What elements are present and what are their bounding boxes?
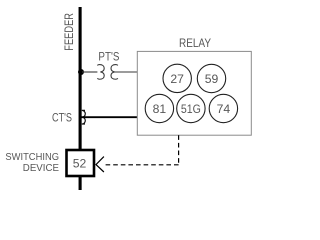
svg-text:SWITCHING: SWITCHING	[5, 152, 59, 163]
svg-text:27: 27	[170, 72, 184, 86]
PT secondary winding	[111, 65, 118, 80]
dashed trip wire vertical	[178, 135, 180, 165]
relay function 81 circle	[145, 94, 173, 122]
svg-text:RELAY: RELAY	[179, 36, 211, 50]
relay function 27 circle	[163, 64, 191, 92]
svg-text:74: 74	[217, 102, 231, 116]
svg-text:81: 81	[153, 102, 167, 116]
svg-text:52: 52	[73, 157, 87, 171]
relay function 74 circle	[209, 94, 237, 122]
dashed trip wire horizontal	[104, 164, 179, 166]
svg-text:FEEDER: FEEDER	[62, 13, 76, 51]
svg-text:PT'S: PT'S	[98, 49, 119, 63]
node PT tap junction	[78, 69, 84, 75]
wire feeder to PT primary	[82, 71, 97, 73]
arrowhead into 52 device	[96, 157, 104, 172]
relay enclosure box	[137, 51, 251, 135]
switching device 52 box	[67, 150, 95, 176]
CT symbol on feeder	[82, 110, 86, 124]
svg-text:CT'S: CT'S	[52, 110, 72, 124]
relay function 59 circle	[197, 64, 225, 92]
wire PT secondary to relay box	[115, 71, 138, 73]
svg-text:51G: 51G	[181, 102, 201, 116]
wire CT to relay box	[81, 116, 137, 118]
feeder bus wire	[79, 7, 82, 190]
relay function 51G circle	[177, 94, 205, 122]
svg-text:DEVICE: DEVICE	[23, 163, 60, 174]
PT primary winding	[97, 65, 104, 80]
svg-text:59: 59	[205, 72, 219, 86]
